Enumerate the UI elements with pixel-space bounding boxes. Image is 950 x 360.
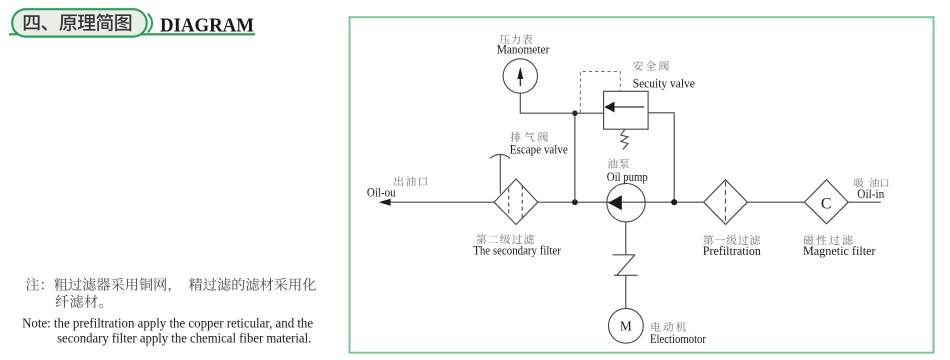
svg-text:Magnetic filter: Magnetic filter: [803, 244, 876, 258]
header pill inner arc: [148, 14, 152, 33]
label 油泵: [608, 159, 629, 169]
header green underline: [9, 33, 255, 35]
wire: secondary filter to prefiltration: [538, 201, 704, 203]
svg-text:Oil pump: Oil pump: [607, 170, 648, 184]
label 压力表: [500, 34, 532, 44]
junction node A: [572, 199, 578, 205]
svg-text:Manometer: Manometer: [497, 43, 550, 57]
svg-text:Electiomotor: Electiomotor: [650, 332, 707, 346]
svg-text:secondary filter apply the che: secondary filter apply the chemical fibe…: [57, 330, 311, 345]
wire: pump to coupling: [625, 222, 627, 255]
wire: prefiltration to magnetic filter: [747, 201, 804, 203]
wire: riser node A to manometer tee: [574, 113, 576, 202]
svg-text:Escape valve: Escape valve: [510, 142, 568, 156]
label 第二级过滤: [476, 234, 534, 244]
svg-text:C: C: [821, 196, 832, 213]
svg-text:DIAGRAM: DIAGRAM: [160, 15, 254, 37]
label 排气阀: [511, 132, 548, 142]
pilot dashed line: [580, 72, 620, 113]
prefiltration filter F1: [704, 180, 748, 225]
label 磁性过滤: [803, 235, 852, 245]
oil pump P: [607, 184, 645, 222]
secondary filter F2: [494, 179, 538, 225]
wire: manometer branch: [520, 93, 575, 113]
svg-text:Secuity valve: Secuity valve: [633, 76, 696, 90]
header pill badge: [12, 9, 147, 36]
svg-text:M: M: [620, 318, 632, 333]
junction node B: [671, 199, 677, 205]
svg-text:The secondary filter: The secondary filter: [473, 244, 561, 258]
svg-text:Oil-ou: Oil-ou: [367, 185, 396, 199]
label 吸油口: [855, 178, 889, 187]
svg-text:Prefiltration: Prefiltration: [703, 244, 761, 258]
label 出油口: [394, 176, 427, 186]
note chinese line1: [26, 278, 316, 293]
electromotor M1: [609, 308, 644, 343]
oil-out arrowhead: [379, 199, 391, 206]
wire: oil-out to secondary filter: [390, 201, 494, 203]
label 电动机: [652, 322, 687, 332]
note chinese line2: [56, 295, 104, 308]
magnetic filter F3: [804, 180, 848, 224]
manometer P1: [503, 59, 537, 93]
label 第一级过滤: [703, 235, 760, 245]
svg-text:Note: the prefiltration apply: Note: the prefiltration apply the copper…: [22, 316, 313, 331]
diagram border box: [350, 17, 934, 353]
security valve spring: [621, 130, 628, 150]
header title 四、原理简图: [24, 13, 131, 31]
wire: coupling to motor: [625, 275, 627, 308]
label 安全阀: [633, 61, 669, 71]
svg-text:Oil-in: Oil-in: [857, 187, 884, 201]
coupling Z symbol: [613, 255, 638, 275]
junction node C (manometer tee): [572, 111, 577, 116]
wire: node C to security valve: [575, 112, 604, 114]
wire: magnetic filter to oil-in port: [848, 201, 881, 203]
wire: security valve to riser B: [648, 113, 674, 202]
security valve U1: [604, 91, 649, 129]
escape valve V2: [490, 154, 510, 193]
